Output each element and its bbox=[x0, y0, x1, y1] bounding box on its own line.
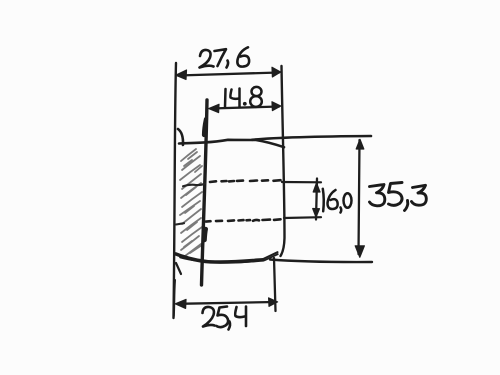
dimension line 14.8 bbox=[211, 107, 279, 109]
extension line / step edge at 14.8 left (thick double-drawn) bbox=[202, 100, 208, 285]
label 16,0 bbox=[323, 189, 352, 213]
label 25,4 bbox=[203, 307, 247, 330]
label 14.8 bbox=[225, 87, 262, 107]
dimension line 16,0 vertical bbox=[316, 179, 317, 220]
dimension 16,0 extension lower bbox=[284, 216, 321, 219]
overshoot tick bottom-left bbox=[176, 263, 181, 274]
dimension line 35,3 vertical bbox=[359, 140, 360, 254]
dimension line 25,4 bbox=[178, 302, 275, 304]
part right edge, also extension of 27,6 / 14.8 bbox=[281, 66, 285, 256]
part top edge bbox=[179, 140, 284, 147]
dimension 16,0 extension upper bbox=[282, 181, 321, 184]
hidden hole dashed line upper bbox=[210, 180, 281, 182]
dimension line 27,6 bbox=[178, 73, 279, 76]
blob on step line bbox=[205, 229, 206, 240]
pencil tick at lower hidden line, left edge bbox=[176, 223, 184, 224]
hidden hole dashed line lower bbox=[206, 219, 281, 221]
extension line right (25,4) bbox=[274, 258, 276, 311]
hatch strokes (section cut of flange) bbox=[180, 149, 202, 256]
bottom edge wedge at right corner bbox=[261, 252, 278, 260]
extension line left (27,6 / 25,4), also left edge of part bbox=[174, 63, 177, 318]
label 27,6 bbox=[200, 47, 250, 67]
extension line bottom (35,3) bbox=[270, 260, 372, 263]
label 35,3 bbox=[370, 183, 427, 211]
part bottom edge (thick) bbox=[176, 254, 263, 262]
part top-left corner curl bbox=[178, 129, 183, 145]
pencil squiggle at upper hidden line, inside flange bbox=[183, 184, 205, 187]
extension line top (35,3), overlaps top edge bbox=[252, 136, 371, 140]
